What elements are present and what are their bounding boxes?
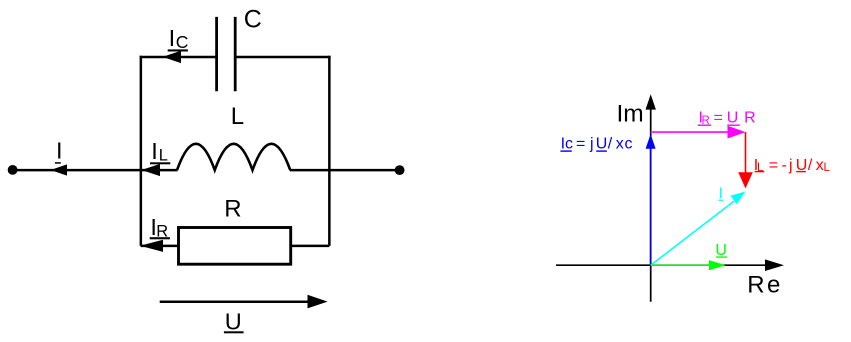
wire resistor to right branch bbox=[291, 245, 330, 248]
phasor IR vector (magenta) bbox=[651, 126, 746, 139]
svg-text:L: L bbox=[159, 146, 168, 164]
svg-text:L: L bbox=[231, 103, 244, 130]
svg-text:U: U bbox=[225, 309, 242, 335]
svg-text:/: / bbox=[808, 157, 813, 174]
svg-text:R: R bbox=[224, 195, 241, 222]
resistor R body bbox=[179, 228, 291, 265]
svg-text:R: R bbox=[744, 110, 756, 127]
svg-text:=: = bbox=[576, 136, 585, 153]
phasor IL vector (red) bbox=[738, 132, 753, 188]
svg-text:Ic: Ic bbox=[561, 136, 573, 153]
svg-text:=: = bbox=[714, 110, 723, 127]
label IR bbox=[150, 214, 170, 240]
arrow I on main wire bbox=[51, 164, 68, 175]
wire to resistor left bbox=[141, 245, 179, 248]
label IR = U R (magenta) bbox=[698, 110, 756, 127]
svg-text:C: C bbox=[244, 6, 262, 34]
arrow IL bbox=[142, 164, 161, 176]
svg-text:L: L bbox=[824, 162, 831, 174]
label U (green) bbox=[715, 242, 727, 259]
svg-text:x: x bbox=[816, 157, 824, 174]
inductor L bbox=[177, 144, 290, 170]
svg-text:=: = bbox=[769, 157, 778, 174]
arrow IC bbox=[163, 51, 182, 63]
wire top (to capacitor) bbox=[140, 56, 217, 59]
label IC bbox=[168, 25, 189, 52]
svg-text:I: I bbox=[151, 138, 158, 164]
svg-text:x: x bbox=[616, 136, 624, 153]
svg-text:j: j bbox=[788, 157, 793, 174]
wire top (capacitor to right) bbox=[235, 56, 330, 59]
svg-text:I: I bbox=[169, 25, 176, 51]
Im axis bbox=[646, 94, 656, 301]
right terminal node bbox=[395, 165, 405, 175]
svg-text:L: L bbox=[757, 162, 764, 174]
wire main left segment bbox=[13, 169, 178, 172]
wire main right segment bbox=[290, 169, 400, 172]
left terminal node bbox=[8, 165, 18, 175]
svg-text:c: c bbox=[625, 136, 633, 153]
svg-text:U: U bbox=[596, 136, 608, 153]
voltage arrow U bbox=[160, 295, 328, 309]
svg-text:Re: Re bbox=[747, 272, 780, 299]
label IL = - j U / xL (red) bbox=[754, 157, 831, 174]
svg-text:U: U bbox=[727, 110, 739, 127]
wire left branch vertical bbox=[140, 56, 143, 246]
capacitor C plates bbox=[217, 17, 236, 91]
svg-text:/: / bbox=[608, 136, 613, 153]
phasor U vector (green) bbox=[651, 260, 726, 270]
svg-text:-: - bbox=[782, 157, 787, 174]
svg-text:j: j bbox=[589, 136, 594, 153]
label I bbox=[55, 138, 63, 164]
Re axis bbox=[556, 259, 784, 271]
label IL bbox=[150, 138, 170, 165]
svg-text:C: C bbox=[176, 32, 189, 52]
phasor IC vector (blue) bbox=[646, 134, 656, 265]
label I (cyan) bbox=[719, 186, 724, 203]
wire right branch vertical bbox=[328, 56, 331, 246]
phasor I vector (cyan) bbox=[651, 192, 746, 266]
label U underlined bbox=[224, 309, 244, 335]
svg-text:Im: Im bbox=[617, 101, 644, 128]
label Ic = j U / xc (blue) bbox=[560, 136, 632, 153]
svg-text:I: I bbox=[56, 138, 63, 164]
arrow IR bbox=[140, 240, 163, 252]
